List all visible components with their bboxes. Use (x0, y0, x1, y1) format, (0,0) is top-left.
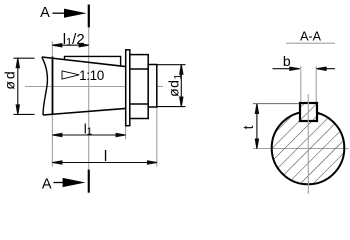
svg-text:ød: ød (2, 69, 18, 89)
svg-text:A: A (42, 177, 52, 193)
svg-text:b: b (283, 53, 291, 69)
svg-text:A: A (40, 5, 50, 21)
svg-text:t: t (240, 125, 256, 129)
svg-text:1:10: 1:10 (79, 68, 104, 83)
svg-text:A-A: A-A (300, 30, 322, 44)
svg-text:l1/2: l1/2 (63, 31, 85, 49)
svg-text:l: l (104, 148, 107, 165)
